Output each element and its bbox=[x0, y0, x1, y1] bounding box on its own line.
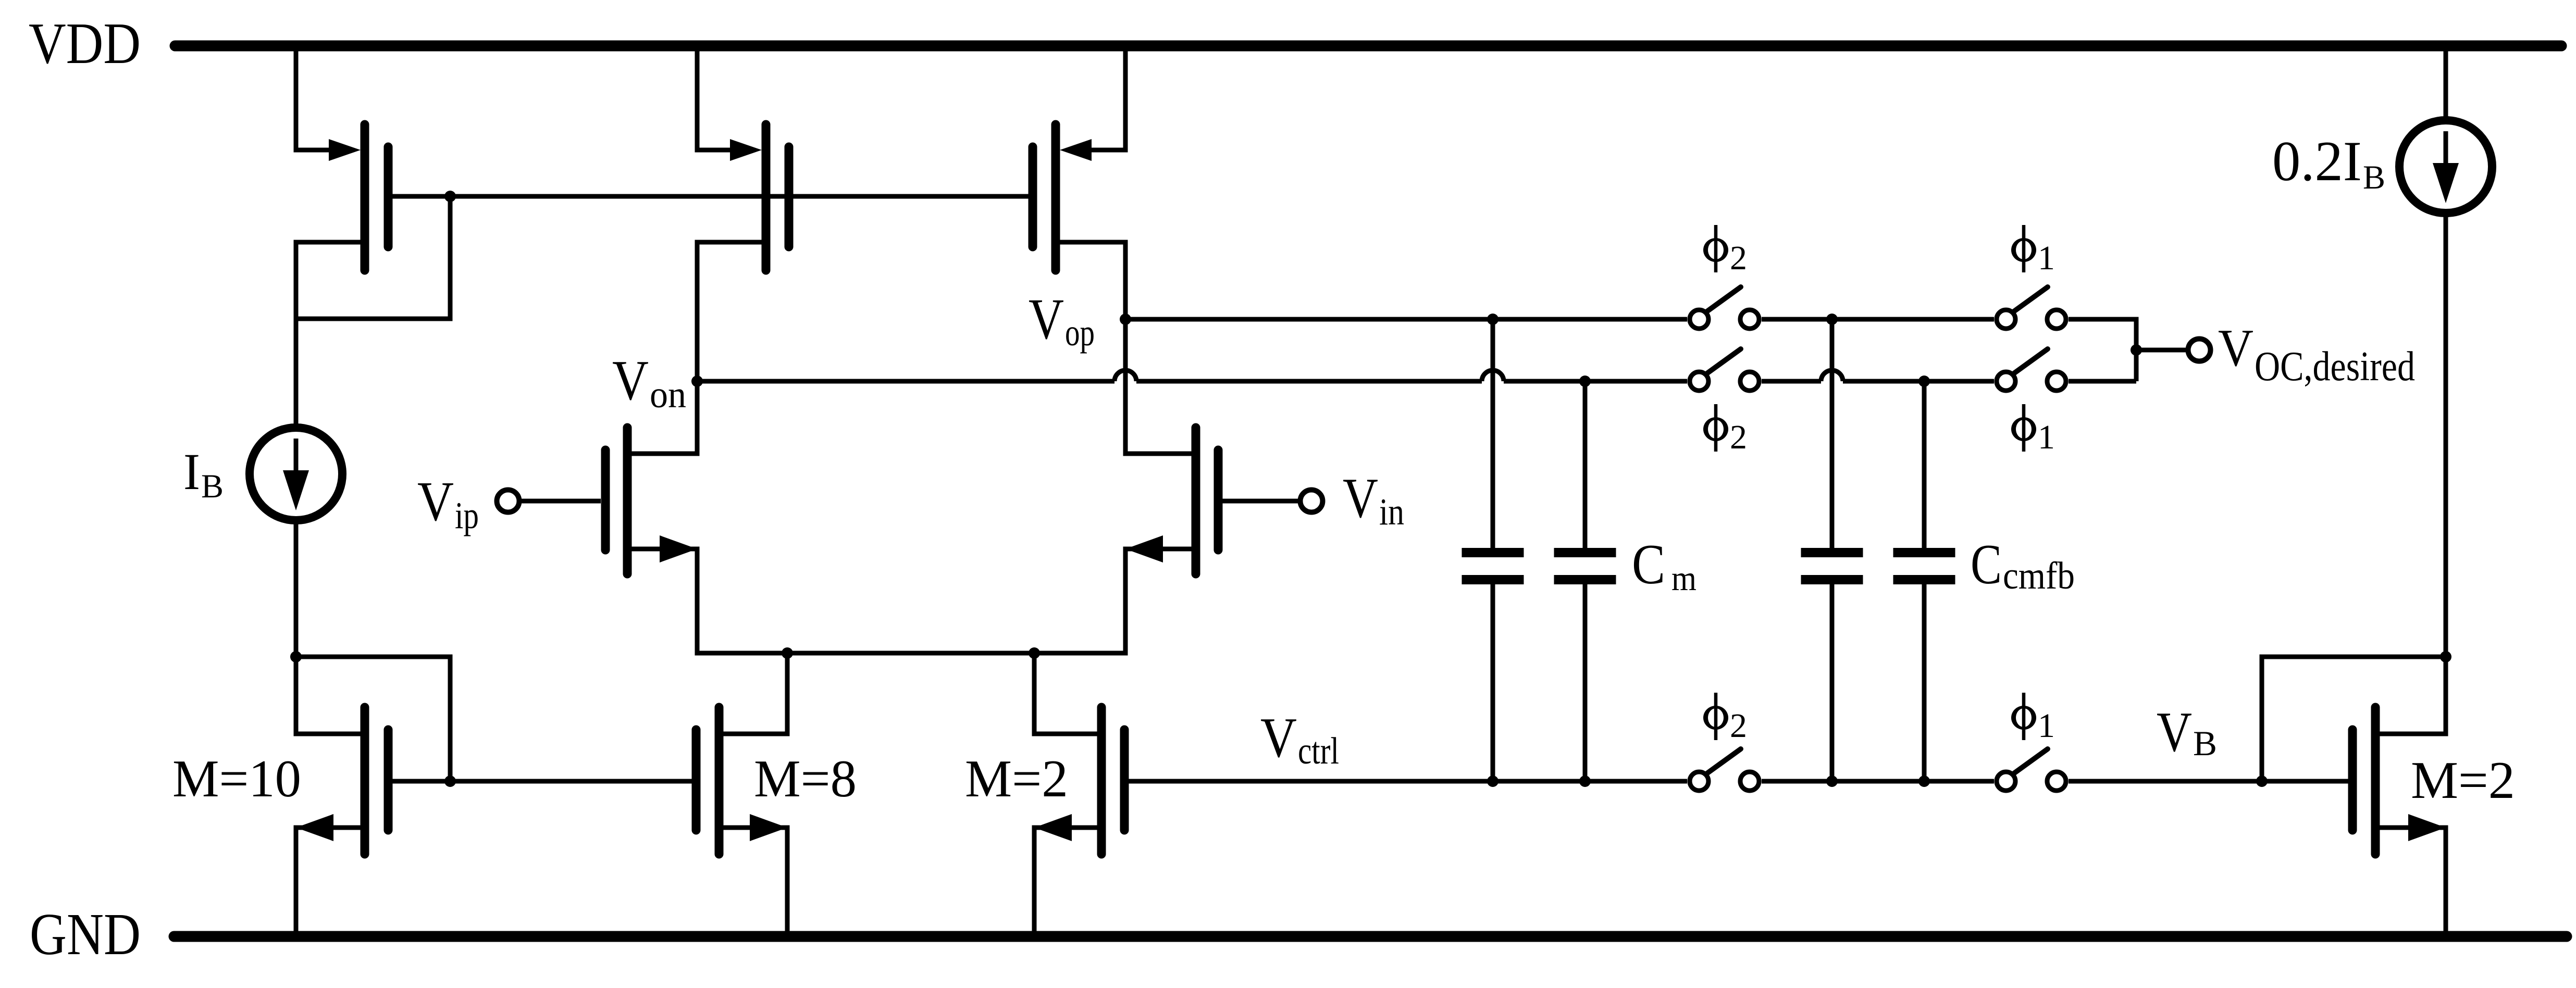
wire Vop to phi2 switch bbox=[1125, 317, 1687, 322]
wire S2 to S4 with hop bbox=[1762, 370, 1994, 381]
Ccmfb label bbox=[1971, 533, 2075, 597]
M2 label M=2 bbox=[965, 749, 1068, 808]
0.2IB label bbox=[2272, 130, 2385, 196]
VB label bbox=[2157, 701, 2217, 764]
phi1 label above S6 bbox=[2011, 693, 2055, 745]
wire M8 source to GND bbox=[785, 828, 790, 936]
wire S5 to S6 bbox=[1762, 779, 1994, 784]
svg-text:1: 1 bbox=[2038, 239, 2055, 277]
phi1 label above S3 bbox=[2011, 225, 2055, 277]
M8 label M=8 bbox=[754, 749, 857, 808]
svg-text:1: 1 bbox=[2038, 418, 2055, 456]
capacitor Cm left (Vop) bbox=[1462, 319, 1524, 781]
transistor M8 NMOS tail M=8 bbox=[696, 707, 790, 854]
svg-text:on: on bbox=[650, 373, 686, 416]
wire VDD to 0.2IB bbox=[2444, 46, 2448, 123]
current source IB bbox=[250, 428, 342, 520]
svg-text:op: op bbox=[1065, 311, 1095, 354]
node A M10 drain-gate junction bbox=[290, 651, 302, 662]
transistor M3 NMOS bias M=2 bbox=[2352, 707, 2448, 854]
transistor M10 NMOS mirror M=10 bbox=[294, 707, 451, 854]
svg-text:B: B bbox=[2193, 723, 2217, 763]
node Vctrl-Ccmfb-left junction bbox=[1826, 776, 1838, 787]
svg-text:V: V bbox=[417, 471, 454, 533]
phi2 label above S5 bbox=[1703, 693, 1747, 745]
switch S6 phi1 Vctrl row bbox=[1997, 749, 2066, 791]
wire N1 source to tail bbox=[695, 549, 700, 653]
svg-text:m: m bbox=[1671, 558, 1696, 598]
svg-text:ctrl: ctrl bbox=[1298, 730, 1339, 772]
terminal VOC,desired bbox=[2188, 339, 2211, 361]
wire M3 source to GND bbox=[2444, 828, 2448, 936]
svg-text:B: B bbox=[201, 468, 224, 505]
wire VB to M3 gate bbox=[2262, 779, 2348, 784]
phi2 label above S1 bbox=[1703, 225, 1747, 277]
transistor M2 NMOS tail M=2 bbox=[1032, 707, 1125, 854]
svg-text:C: C bbox=[1632, 533, 1665, 596]
node B M3 drain-gate junction bbox=[2440, 651, 2451, 662]
Vop label bbox=[1029, 287, 1095, 354]
wire Von node to N1 drain bbox=[695, 381, 700, 454]
wire Vin to N2 gate bbox=[1222, 499, 1298, 504]
wire Vop node to N2 drain bbox=[1123, 319, 1128, 454]
input terminal Vin bbox=[1301, 490, 1323, 512]
node Vctrl-Cm-left junction bbox=[1487, 776, 1498, 787]
svg-text:V: V bbox=[2157, 701, 2192, 764]
node VB junction bbox=[2256, 776, 2268, 787]
Cm label bbox=[1632, 533, 1696, 598]
wire to VOC terminal bbox=[2136, 348, 2186, 353]
svg-text:cmfb: cmfb bbox=[2003, 555, 2075, 597]
switch S3 phi1 Vop row bbox=[1997, 287, 2066, 329]
wire P1 diode loop gate-to-drain bbox=[296, 196, 450, 319]
svg-text:M=8: M=8 bbox=[754, 749, 857, 808]
wire VDD to P1 source bbox=[296, 46, 329, 150]
capacitor Ccmfb left (Vop) bbox=[1801, 319, 1863, 781]
transistor P3 PMOS load right bbox=[1033, 124, 1128, 270]
GND label bbox=[30, 901, 141, 967]
current source 0.2IB bbox=[2399, 120, 2492, 213]
Von label bbox=[612, 349, 686, 416]
Vin label bbox=[1343, 467, 1404, 533]
svg-text:V: V bbox=[612, 349, 649, 412]
node M10 gate junction bbox=[444, 776, 456, 787]
wire node B to M3 drain bbox=[2444, 657, 2448, 734]
wire PMOS gate bus to P3 bbox=[450, 194, 1029, 199]
node Von junction bbox=[691, 376, 703, 387]
node VOC join junction bbox=[2131, 344, 2142, 356]
wire M10 source to GND bbox=[294, 828, 299, 936]
capacitor Cm right (Von) bbox=[1554, 381, 1616, 781]
wire IB to node A bbox=[294, 523, 299, 657]
VDD rail bbox=[175, 41, 2561, 52]
svg-text:V: V bbox=[1343, 467, 1378, 530]
switch S1 phi2 Vop row bbox=[1690, 287, 1759, 329]
M3 label M=2 bbox=[2411, 751, 2515, 810]
svg-text:ip: ip bbox=[455, 494, 479, 536]
wire M10 diode loop bbox=[296, 657, 450, 781]
M10 label M=10 bbox=[172, 749, 301, 808]
transistor P1 PMOS diode-connected mirror bbox=[294, 124, 451, 270]
Vip label bbox=[417, 471, 479, 536]
wire M2 source to GND bbox=[1032, 828, 1037, 936]
IB label bbox=[183, 443, 224, 505]
transistor N1 NMOS input left bbox=[605, 428, 700, 574]
svg-text:VDD: VDD bbox=[29, 11, 141, 76]
wire NMOS gate bus M10 to M8 bbox=[450, 779, 692, 784]
node Vop-Ccmfb junction bbox=[1826, 314, 1838, 325]
wire VDD to P3 source bbox=[1092, 46, 1125, 150]
node tail-M8 junction bbox=[782, 647, 793, 659]
svg-text:2: 2 bbox=[1730, 239, 1747, 277]
switch S5 phi2 Vctrl row bbox=[1690, 749, 1759, 791]
node Vctrl-Cm-right junction bbox=[1579, 776, 1591, 787]
wire P2 drain to Von node bbox=[695, 242, 700, 381]
wire Vctrl M2 gate to phi2 switch bbox=[1129, 779, 1687, 784]
wire S1 to S3 bbox=[1762, 317, 1994, 322]
wire 0.2IB to node B bbox=[2444, 210, 2448, 657]
svg-text:I: I bbox=[183, 443, 200, 501]
switch S4 phi1 Von row bbox=[1997, 349, 2066, 391]
svg-text:C: C bbox=[1971, 533, 2002, 596]
node tail-M2 junction bbox=[1029, 647, 1040, 659]
wire S4 to VOC join bbox=[2069, 379, 2136, 384]
switch S2 phi2 Von row bbox=[1690, 349, 1759, 391]
GND rail bbox=[174, 931, 2567, 942]
wire Vip to N1 gate bbox=[522, 499, 601, 504]
wire VDD to P2 source bbox=[697, 46, 730, 150]
svg-text:V: V bbox=[2218, 319, 2253, 378]
node Von-Ccmfb junction bbox=[1918, 376, 1930, 387]
wire node A to M10 drain bbox=[294, 657, 299, 734]
wire S6 to VB node bbox=[2069, 779, 2262, 784]
svg-text:V: V bbox=[1029, 287, 1064, 352]
wire M8 drain to tail node bbox=[785, 653, 790, 734]
VOC,desired label bbox=[2218, 319, 2415, 390]
node Von-Cm junction bbox=[1579, 376, 1591, 387]
wire S3 to VOC join bbox=[2069, 319, 2136, 381]
VDD label bbox=[29, 11, 141, 76]
svg-text:in: in bbox=[1379, 491, 1404, 533]
wire M2 drain to tail node bbox=[1032, 653, 1037, 734]
transistor P2 PMOS load left bbox=[695, 124, 789, 270]
svg-text:M=10: M=10 bbox=[172, 749, 301, 808]
svg-text:M=2: M=2 bbox=[965, 749, 1068, 808]
phi1 label below S4 bbox=[2011, 404, 2055, 456]
svg-text:2: 2 bbox=[1730, 707, 1747, 745]
Vctrl label bbox=[1260, 706, 1339, 772]
svg-text:B: B bbox=[2363, 159, 2385, 196]
wire tail bus bbox=[695, 651, 1128, 656]
svg-text:1: 1 bbox=[2038, 707, 2055, 745]
svg-text:OC,desired: OC,desired bbox=[2255, 344, 2415, 390]
svg-text:M=2: M=2 bbox=[2411, 751, 2515, 810]
wire P1 drain down to IB bbox=[294, 242, 299, 425]
node Vop-Cm junction bbox=[1487, 314, 1498, 325]
wire P3 drain to Vop node bbox=[1123, 242, 1128, 319]
wire N2 source to tail bbox=[1123, 549, 1128, 653]
node Vop junction bbox=[1120, 314, 1131, 325]
node P1 gate junction bbox=[444, 191, 456, 202]
svg-text:0.2I: 0.2I bbox=[2272, 130, 2362, 193]
node Vctrl-Ccmfb-right junction bbox=[1918, 776, 1930, 787]
transistor N2 NMOS input right bbox=[1123, 428, 1219, 574]
phi2 label below S2 bbox=[1703, 404, 1747, 456]
wire Von to phi2 switch with hops bbox=[697, 370, 1687, 381]
wire M3 diode loop bbox=[2262, 657, 2446, 781]
svg-text:GND: GND bbox=[30, 901, 141, 967]
svg-text:2: 2 bbox=[1730, 418, 1747, 456]
input terminal Vip bbox=[497, 490, 519, 512]
svg-text:V: V bbox=[1260, 706, 1297, 769]
capacitor Ccmfb right (Von) bbox=[1893, 381, 1955, 781]
